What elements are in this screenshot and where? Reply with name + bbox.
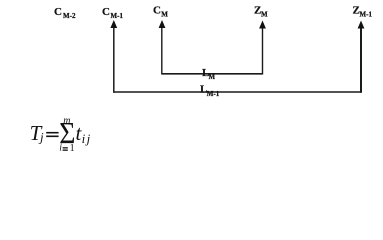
svg-text:C: C <box>54 6 62 18</box>
svg-text:M: M <box>209 73 216 81</box>
svg-text:M-1: M-1 <box>207 90 220 98</box>
svg-text:M-1: M-1 <box>111 12 124 20</box>
svg-text:i: i <box>82 131 86 146</box>
svg-text:i: i <box>59 143 62 154</box>
svg-text:M: M <box>261 11 268 19</box>
svg-text:C: C <box>102 6 110 18</box>
svg-text:j: j <box>85 131 91 146</box>
svg-text:M: M <box>161 11 168 19</box>
svg-text:M-2: M-2 <box>63 12 76 20</box>
svg-text:M-1: M-1 <box>360 11 373 19</box>
svg-text:C: C <box>153 5 161 17</box>
svg-text:1: 1 <box>70 143 75 154</box>
svg-text:m: m <box>63 116 70 127</box>
